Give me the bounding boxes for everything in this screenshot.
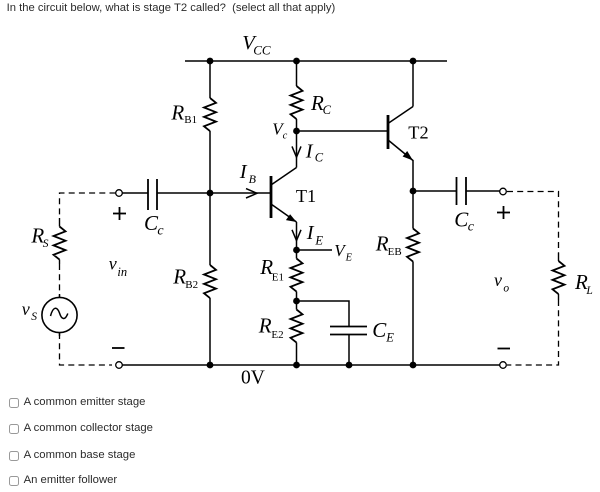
wire T2 collector diagonal [389,107,413,124]
wire RL bottom lead [558,294,560,300]
label RC [310,91,332,117]
arrow IE [292,230,301,241]
svg-text:E: E [345,252,353,263]
resistor RE1 [291,259,303,292]
label RB1 [170,100,197,126]
T1 emitter arrowhead [286,214,297,222]
checkbox option 3 [9,451,19,461]
wire CC to base node [157,192,210,194]
wire T1 emitter diagonal [272,205,297,223]
svg-text:C: C [323,103,332,117]
checkbox option 4 [9,476,19,486]
label Vc [272,120,287,142]
wire RC bottom lead to Vc node [296,119,298,131]
label VCC [242,32,271,58]
label CC input [144,211,164,238]
capacitor CC input right plate [156,179,158,210]
svg-text:in: in [117,265,127,279]
svg-text:C: C [372,318,387,342]
wire RE2 bottom lead [296,343,298,366]
wire RL top lead [558,253,560,261]
resistor RS [54,227,66,260]
svg-text:S: S [31,311,37,323]
terminal output bottom [500,362,507,369]
label vo [494,270,509,295]
node dot bottom REB [410,362,417,369]
wire Vc node down to T1 collector [296,131,298,168]
svg-text:C: C [315,151,324,165]
resistor RB1 [204,98,216,131]
node dot RE1-RE2 [293,298,300,305]
dashed wire RL to bottom corner [507,300,559,365]
node dot bottom CE [346,362,353,369]
label vs [22,299,38,323]
dashed wire RS to source [59,264,61,297]
terminal input top [116,190,123,197]
capacitor CC input left plate [147,179,149,210]
svg-text:B: B [249,172,257,186]
wire cap to output terminal [466,190,500,192]
capacitor CE bottom plate [330,334,367,336]
svg-text:R: R [170,100,184,124]
dashed wire output top [507,192,559,254]
resistor RB2 [204,265,216,298]
checkbox option 2 [9,424,19,434]
wire RS top lead [59,218,61,227]
label IC [305,141,324,165]
terminal output top [500,188,507,195]
T2 emitter arrowhead [403,151,413,161]
capacitor CE top plate [330,326,367,328]
svg-text:R: R [172,265,186,289]
dashed wire source to bottom corner [60,333,113,365]
wire REB bottom lead [412,262,414,366]
dashed wire input top [60,193,116,218]
capacitor CC output right plate [465,177,467,205]
svg-text:v: v [22,299,30,319]
wire T2 collector up to rail [412,61,414,107]
svg-text:R: R [258,314,272,338]
wire RE1 top lead [296,250,298,259]
resistor REB [407,229,419,262]
node dot top rail RB1 [207,58,214,65]
svg-text:S: S [43,238,49,250]
svg-text:L: L [585,285,592,297]
minus sign input [112,347,125,349]
node dot VE [293,247,300,254]
wire emitter node to REB [412,191,414,229]
svg-text:I: I [305,141,314,163]
svg-text:EB: EB [388,246,402,258]
svg-text:B2: B2 [185,279,198,291]
svg-text:E1: E1 [272,272,284,284]
wire base node to RB2 [209,193,211,265]
wire T1 collector diagonal [272,168,297,185]
label CE [372,318,394,345]
label RE1 [259,255,284,283]
node dot top rail RC [293,58,300,65]
node dot base [207,190,214,197]
wire RB1 bottom lead [209,131,211,193]
wire RB1 top lead [209,61,211,98]
svg-text:T2: T2 [408,123,428,143]
svg-text:v: v [494,270,502,290]
svg-text:I: I [306,222,315,244]
label VE [334,241,352,263]
label RS [30,223,48,250]
svg-text:B1: B1 [184,114,197,126]
transistor T1 base bar [270,176,273,218]
label IE [306,222,324,248]
wire T1 base from node [210,192,270,194]
node dot top rail T2 [410,58,417,65]
wire CE branch top [297,301,350,327]
wire Vc node to T2 base [297,130,389,132]
source sine wave [51,308,68,318]
label RB2 [172,265,198,291]
label vin [109,254,127,279]
svg-text:T1: T1 [296,186,316,206]
label RL [574,270,593,297]
node dot bottom RE2 [293,362,300,369]
transistor T2 base bar [387,115,390,149]
label CC output [454,208,475,235]
minus sign output [498,348,511,350]
svg-text:c: c [283,131,288,142]
wire T1 emitter down to VE node [296,222,298,250]
label IB [239,161,257,186]
wire T2 emitter down to node [412,160,414,191]
svg-text:E2: E2 [271,329,283,341]
wire CE bottom lead [348,335,350,366]
label RE2 [258,314,284,341]
arrow IB [246,189,257,198]
svg-text:c: c [468,220,475,235]
arrow IC [292,146,301,157]
source vs circle [42,297,77,332]
wire VE stub [297,249,333,251]
bottom rail wire [123,364,500,366]
wire RE1 bottom lead [296,292,298,310]
Vcc top rail wire [185,60,447,62]
resistor RE2 [291,310,303,343]
node dot bottom RB2 [207,362,214,369]
svg-text:I: I [239,161,248,183]
svg-text:CC: CC [253,42,271,57]
wire emitter node to output cap [413,190,456,192]
wire input terminal to CC [123,192,149,194]
svg-text:E: E [314,234,323,248]
plus sign input [113,213,126,215]
wire RS bottom lead [59,260,61,265]
capacitor CC output left plate [456,177,458,205]
svg-text:v: v [109,254,117,274]
node dot Vc [293,128,300,135]
resistor RL [553,261,565,294]
wire source stubs [59,294,61,297]
terminal input bottom [116,362,123,369]
wire RC top lead [296,61,298,86]
node dot T2 emitter [410,188,417,195]
resistor RC [291,86,303,119]
label REB [375,231,402,257]
wire RB2 bottom lead [209,298,211,365]
svg-text:E: E [385,331,394,345]
svg-text:c: c [157,223,164,238]
svg-text:o: o [503,283,509,295]
plus sign output [497,212,510,214]
svg-text:0V: 0V [241,368,265,389]
wire T2 emitter diagonal [389,141,413,161]
checkbox option 1 [9,398,19,408]
